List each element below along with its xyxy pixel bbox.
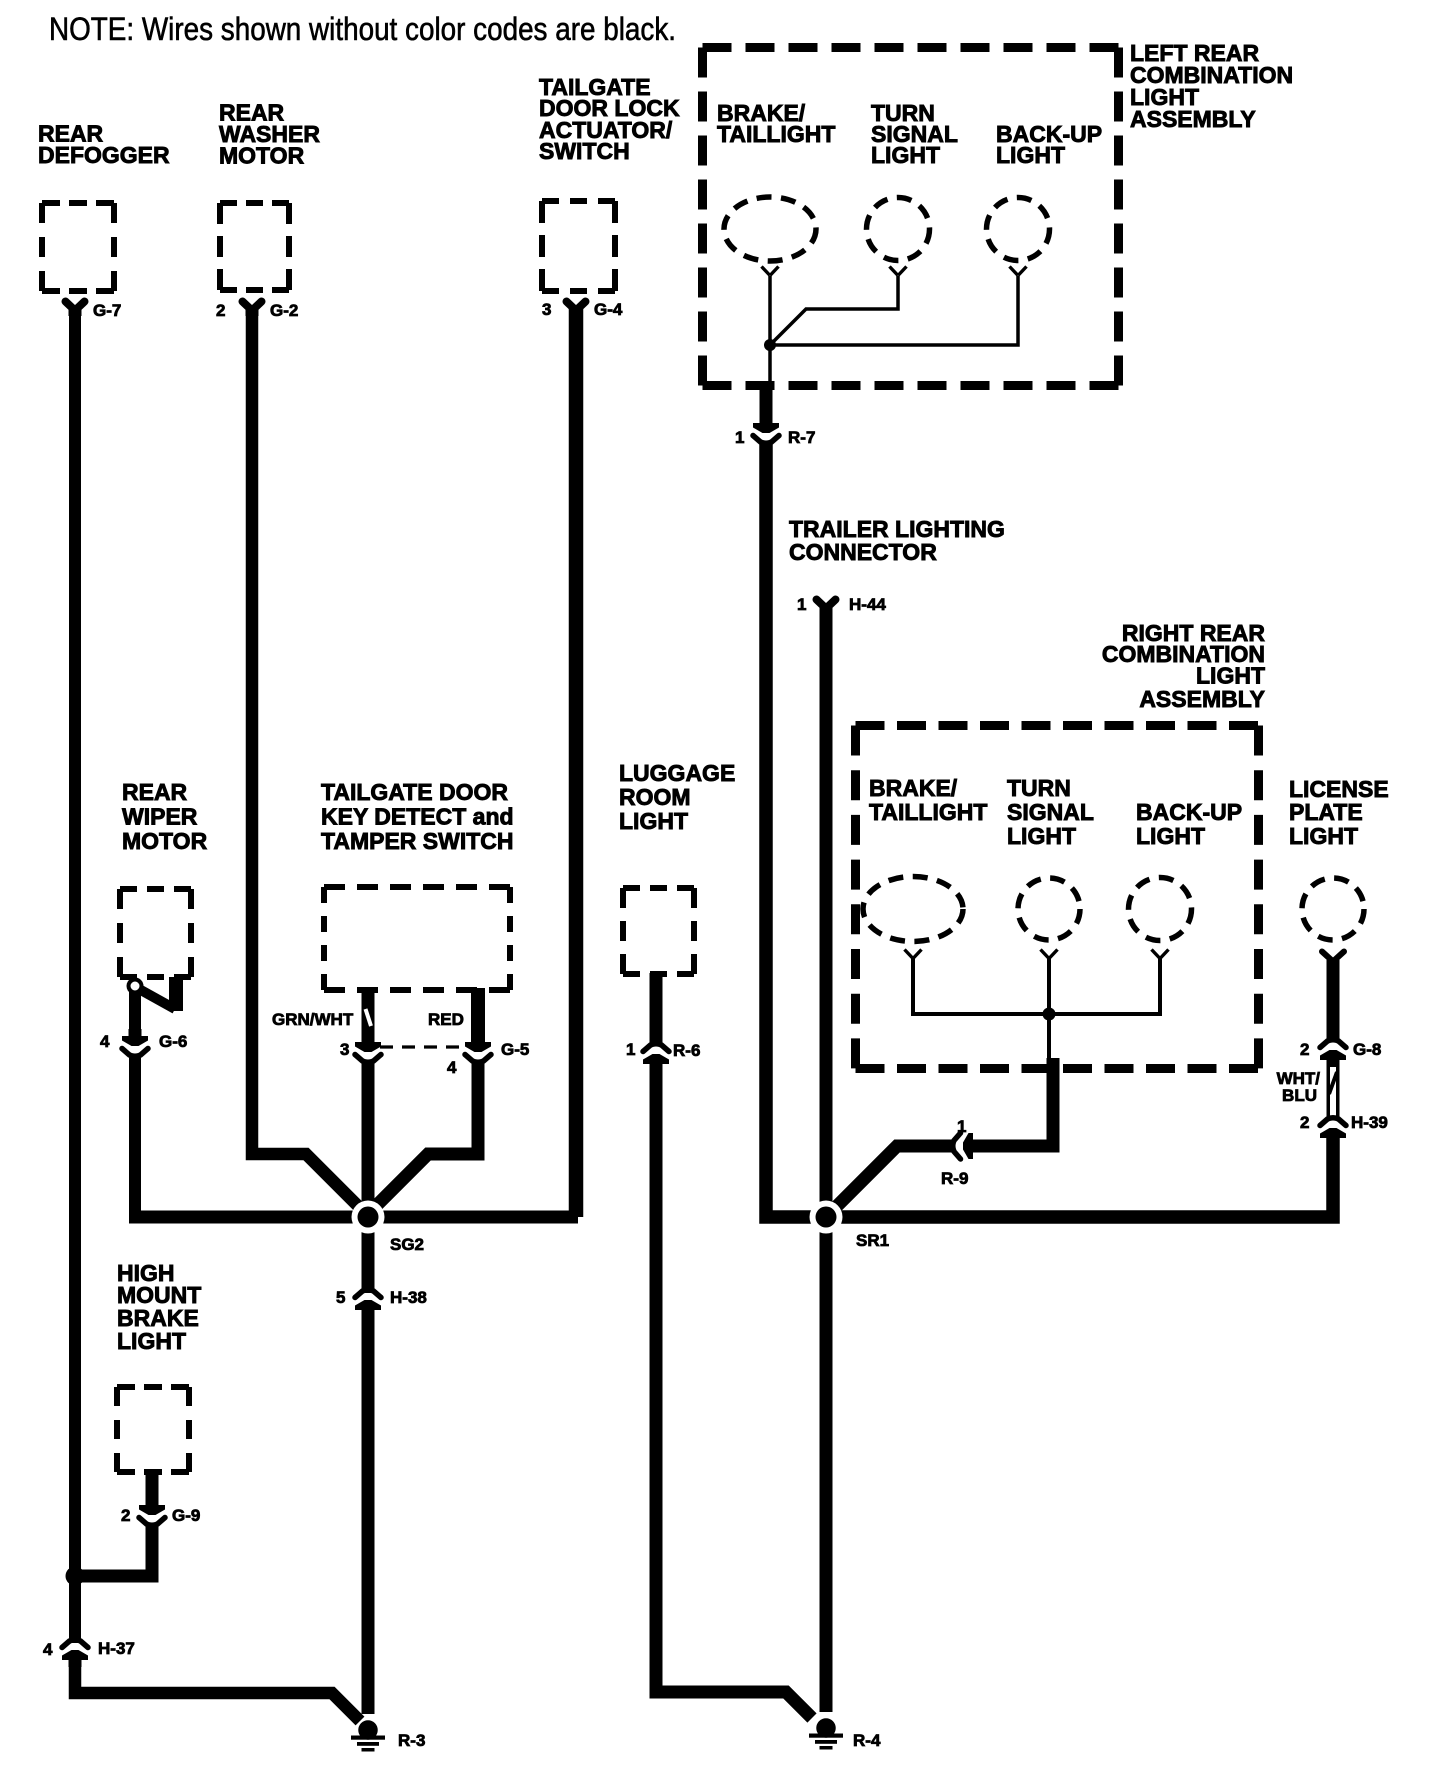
svg-text:TAMPER SWITCH: TAMPER SWITCH [321,828,514,854]
node (right assembly junction) [1043,1008,1056,1021]
wire (rear washer motor to SG2) [252,309,368,1216]
svg-text:H-38: H-38 [390,1288,427,1307]
connector G-2 socket [243,302,262,317]
svg-text:NOTE: Wires shown without colo: NOTE: Wires shown without color codes ar… [49,11,676,47]
left rear combination light assembly (dashed box) [703,48,1119,386]
tailgate door lock actuator/switch (dashed box) [542,201,615,291]
back-up lamp (right, dashed circle) [1129,878,1192,941]
svg-text:LUGGAGE: LUGGAGE [619,760,735,786]
wire (left assembly out) [768,345,772,383]
svg-text:3: 3 [542,300,551,319]
wire (right backup lamp lead) [1054,958,1160,1014]
rear defogger label [38,121,170,169]
svg-text:ASSEMBLY: ASSEMBLY [1139,686,1265,712]
license plate light label [1289,776,1389,849]
wire (left backup lamp lead) [775,276,1018,345]
svg-text:5: 5 [336,1288,345,1307]
svg-text:2: 2 [1300,1040,1309,1059]
wire color label WHT/BLU [1277,1069,1321,1105]
svg-text:LIGHT: LIGHT [1007,823,1076,849]
turn signal lamp (right, dashed circle) [1018,878,1080,940]
lamp socket Y (left brake) [762,267,779,276]
right rear combination light assembly (dashed box) [856,726,1259,1069]
wire (high mount brake light to G-9) [146,1472,159,1510]
svg-text:SG2: SG2 [390,1235,424,1254]
svg-text:BACK-UP: BACK-UP [1136,799,1242,825]
wire (SR1 to ground R-4) [820,1217,833,1712]
svg-text:LIGHT: LIGHT [619,808,688,834]
wire (SG2 to H-38) [362,1217,375,1293]
rear washer motor (dashed box) [220,203,289,290]
wire (left horizontal run into SG2) [129,1211,578,1224]
wire WHT/BLU hollow segment (G-8 to H-39) [1327,1057,1340,1120]
ground R-4 [809,1718,843,1749]
svg-text:R-6: R-6 [673,1041,700,1060]
svg-text:G-7: G-7 [93,301,121,320]
svg-text:H-44: H-44 [849,595,886,614]
svg-text:ASSEMBLY: ASSEMBLY [1130,106,1256,132]
svg-text:2: 2 [1300,1113,1309,1132]
ground R-3 [351,1720,385,1751]
svg-text:REAR: REAR [122,779,188,805]
wire (right assembly down to R-9) [974,1058,1053,1146]
svg-text:4: 4 [100,1032,110,1051]
wiper park switch pivot [129,980,142,993]
svg-text:CONNECTOR: CONNECTOR [789,539,937,565]
svg-text:TURN: TURN [1007,775,1071,801]
svg-text:RED: RED [428,1010,464,1029]
wire (G-5 pin 4 to SG2) [368,1060,478,1214]
lamp socket Y (left backup) [1010,267,1027,276]
wire (trailer lighting connector H-44 to SR1) [820,608,833,1217]
wire (H-39 to SR1 horizontal) [1327,1134,1340,1217]
lamp socket Y (right turn) [1041,950,1058,959]
wire (license plate light to G-8) [1327,960,1340,1042]
lamp socket Y (left turn) [890,267,907,276]
license plate lamp (dashed circle) [1302,878,1364,940]
svg-text:PLATE: PLATE [1289,799,1363,825]
svg-text:BLU: BLU [1282,1086,1317,1105]
svg-text:4: 4 [447,1058,457,1077]
wiper park switch contact stub [169,977,183,1011]
connector H-44 socket [817,600,836,615]
wire (G-5 pin 3 to SG2) [362,1060,375,1217]
svg-text:G-8: G-8 [1353,1040,1381,1059]
brake/taillight lamp (left, dashed ellipse) [724,197,816,261]
connector G-5 pin 3 [355,1035,381,1062]
connector H-39 [1320,1118,1346,1145]
wire (tailgate door lock to SG2) [569,309,584,1217]
back-up light label (right assembly) [1136,799,1242,849]
svg-text:2: 2 [121,1506,130,1525]
svg-text:R-9: R-9 [941,1169,968,1188]
svg-text:ROOM: ROOM [619,784,691,810]
connector G-5 dashed link [380,1045,468,1048]
svg-text:LIGHT: LIGHT [1289,823,1358,849]
trailer lighting connector label [789,516,1005,565]
connector H-37 [62,1640,88,1667]
brake/taillight label (right assembly) [869,775,987,825]
connector G-7 socket [66,302,85,317]
brake/taillight label (left assembly) [717,100,835,147]
svg-text:R-4: R-4 [853,1731,881,1750]
svg-text:DEFOGGER: DEFOGGER [38,142,170,168]
svg-text:MOTOR: MOTOR [219,143,305,169]
svg-text:R-7: R-7 [788,428,815,447]
turn signal light label (left assembly) [871,100,958,168]
svg-text:KEY DETECT and: KEY DETECT and [321,804,514,830]
luggage room light label [619,760,735,834]
svg-text:LIGHT: LIGHT [117,1328,186,1354]
wire (G-9 to defogger wire junction) [80,1523,152,1576]
luggage room light (dashed box) [623,888,694,974]
svg-text:1: 1 [797,595,806,614]
svg-text:G-5: G-5 [501,1040,529,1059]
wire color stripe mark (GRN/WHT) [366,1009,372,1026]
svg-text:LIGHT: LIGHT [871,142,940,168]
rear defogger (dashed box) [42,203,114,291]
svg-text:WIPER: WIPER [122,804,198,830]
tailgate door key detect and tamper switch (dashed box) [324,887,510,990]
svg-text:LIGHT: LIGHT [1196,663,1265,689]
wire (R-7 down, along bottom to license plate riser) [766,441,1333,1217]
svg-text:LIGHT: LIGHT [1136,823,1205,849]
svg-text:1: 1 [626,1040,635,1059]
high mount brake light (dashed box) [117,1387,189,1472]
node (left assembly junction) [764,339,776,351]
svg-text:2: 2 [216,301,225,320]
svg-text:TAILLIGHT: TAILLIGHT [869,799,987,825]
svg-text:TAILGATE DOOR: TAILGATE DOOR [321,779,508,805]
svg-text:BRAKE/: BRAKE/ [869,775,958,801]
node SG2 splice [352,1201,385,1234]
high mount brake light label [117,1260,201,1354]
brake/taillight lamp (right, dashed ellipse) [863,877,963,942]
wire RED (key detect to G-5 pin 4) [471,988,485,1042]
tailgate door key detect and tamper switch label [321,779,514,854]
right rear combination light assembly label [1102,620,1266,712]
node (defogger / high mount splice) [66,1567,85,1586]
wire (rear wiper motor to G-6) [129,992,141,1041]
connector G-5 pin 4 [465,1035,491,1062]
turn signal light label (right assembly) [1007,775,1094,849]
svg-text:SIGNAL: SIGNAL [1007,799,1094,825]
wire (G-6 to SG2 horizontal) [129,1054,141,1218]
rear wiper motor label [122,779,208,854]
svg-text:G-9: G-9 [172,1506,200,1525]
connector G-9 [139,1498,165,1525]
wire (R-9 to SR1) [828,1146,953,1215]
turn signal lamp (left, dashed circle) [867,198,930,261]
connector H-38 [355,1290,381,1317]
svg-text:TAILLIGHT: TAILLIGHT [717,121,835,147]
wire (left brake lamp lead) [768,276,772,341]
connector G-4 socket [567,302,586,317]
svg-text:SR1: SR1 [856,1231,889,1250]
svg-text:LIGHT: LIGHT [996,142,1065,168]
svg-text:MOTOR: MOTOR [122,828,208,854]
lamp socket Y (right brake) [905,950,922,959]
svg-text:H-39: H-39 [1351,1113,1388,1132]
connector G-8 [1320,1040,1346,1067]
rear washer motor label [219,100,320,169]
connector R-6 [643,1044,669,1071]
wire (luggage room light to R-6) [650,973,663,1046]
rear wiper motor (dashed box) [120,889,191,977]
wire (left assembly to R-7) [760,381,773,428]
svg-text:3: 3 [340,1040,349,1059]
lamp socket Y (license) [1322,952,1344,962]
svg-text:GRN/WHT: GRN/WHT [272,1010,354,1029]
wire (right assembly out) [1047,1014,1051,1058]
connector G-6 [122,1029,148,1056]
wire (left turn lamp lead) [770,276,898,345]
svg-text:4: 4 [43,1640,53,1659]
svg-text:G-2: G-2 [270,301,298,320]
lamp socket Y (right backup) [1152,950,1169,959]
svg-text:G-6: G-6 [159,1032,187,1051]
wire (right brake lamp lead) [913,958,1044,1014]
wire (R-6 to ground R-4) [656,1061,812,1718]
node SR1 splice [810,1201,843,1234]
svg-text:1: 1 [735,428,744,447]
back-up light label (left assembly) [996,121,1102,168]
wiper park switch arm [139,989,175,1009]
wire (H-38 to ground R-3) [362,1306,375,1714]
connector R-9 [953,1133,980,1159]
svg-text:1: 1 [957,1117,966,1136]
wire GRN/WHT (key detect to G-5 pin 3) [362,988,375,1042]
wire (rear defogger to H-37 and ground R-3) [69,309,81,1643]
tailgate door lock actuator/switch label [539,74,680,164]
svg-text:H-37: H-37 [98,1639,135,1658]
back-up lamp (left, dashed circle) [987,198,1050,261]
svg-text:SWITCH: SWITCH [539,138,630,164]
left rear combination light assembly label [1130,40,1293,132]
wire (right turn lamp lead) [1047,958,1051,1014]
connector R-7 [753,416,779,443]
svg-text:G-4: G-4 [594,300,623,319]
svg-text:R-3: R-3 [398,1731,425,1750]
